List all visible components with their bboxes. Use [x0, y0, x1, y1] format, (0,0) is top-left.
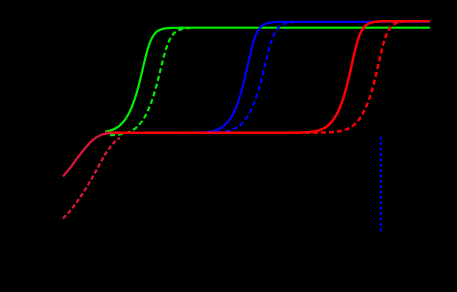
red dashed curve: [105, 22, 405, 133]
red solid curve: [105, 21, 430, 133]
crimson solid left branch: [63, 133, 113, 177]
green solid curve: [105, 28, 430, 132]
blue dashed curve: [105, 22, 294, 133]
crimson dashed left branch: [63, 138, 120, 219]
blue dotted vertical marker line: [380, 137, 382, 234]
blue solid curve: [105, 22, 430, 133]
green dashed curve (pre-rise plateau + rise + top plateau): [110, 28, 190, 135]
